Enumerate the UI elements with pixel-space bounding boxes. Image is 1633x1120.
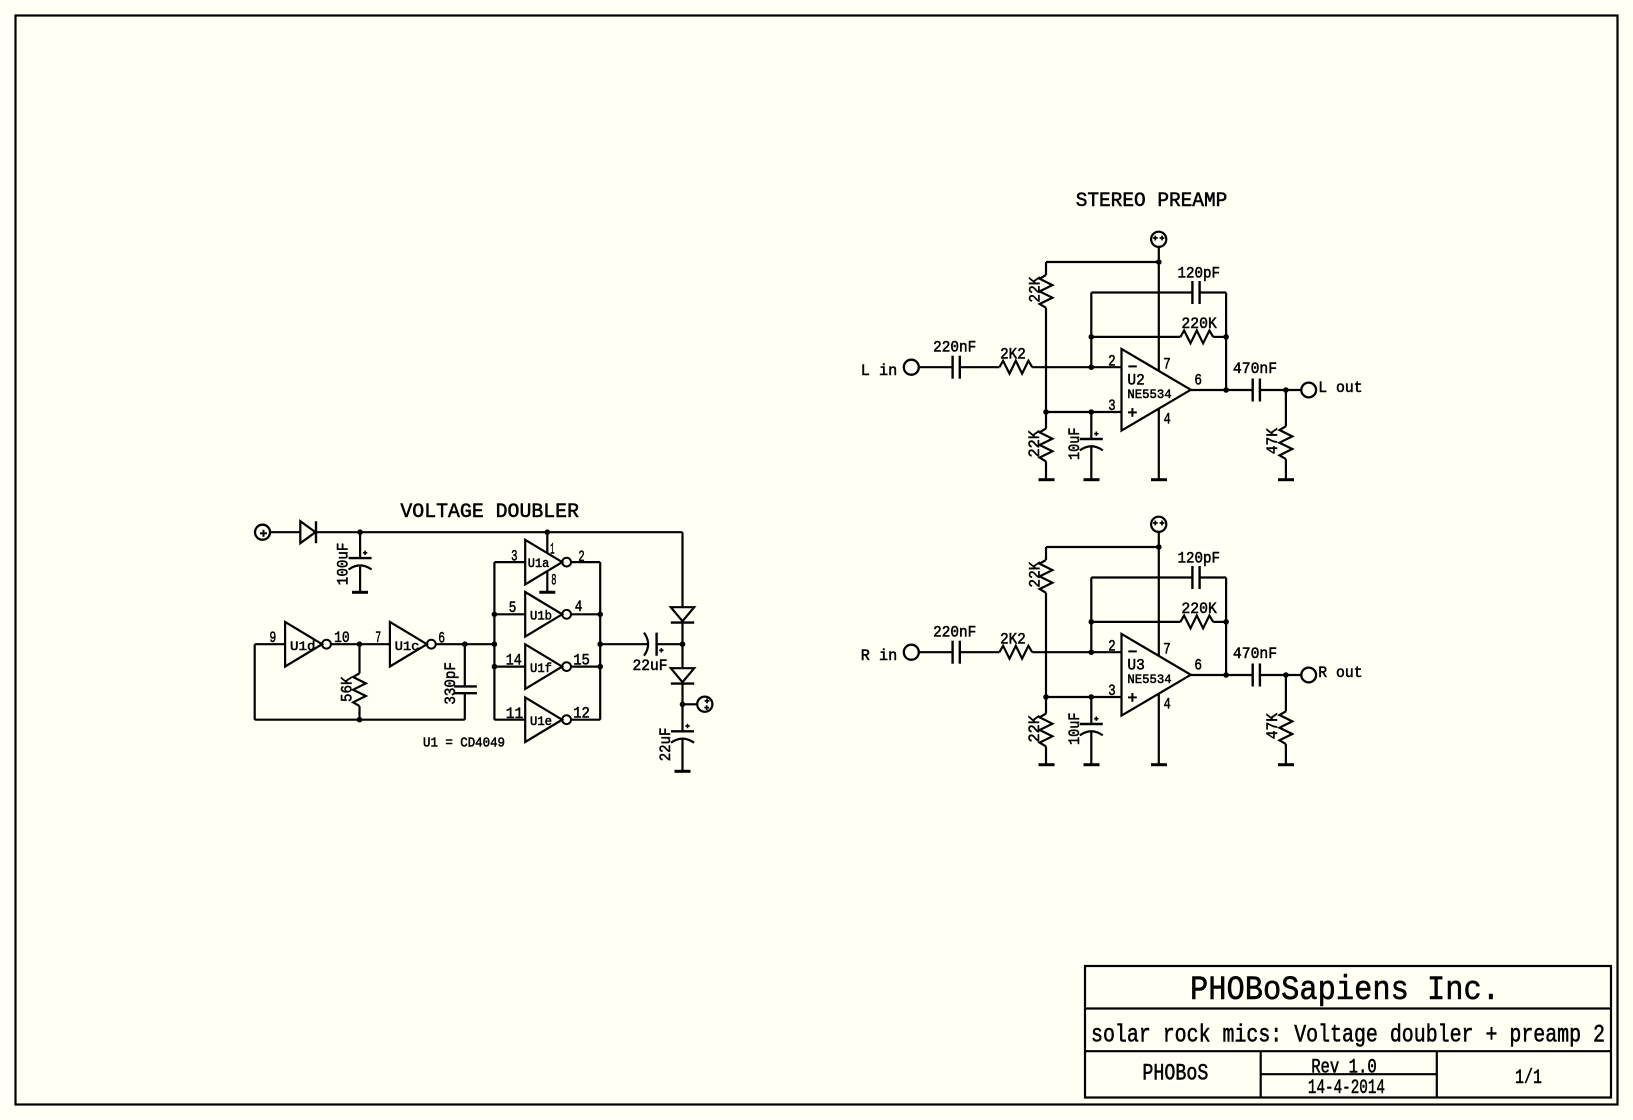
junction: 220K left end	[1089, 334, 1095, 340]
inverter U1c (CD4049)	[390, 622, 427, 667]
ground (47K)	[1278, 763, 1294, 766]
wire 22K lower to ground	[1045, 461, 1047, 479]
resistor 2K2 (R input)	[999, 646, 1032, 659]
wire top rail down to 22K upper	[1045, 262, 1047, 275]
ground (10uF)	[1084, 763, 1100, 766]
port R out (output connector)	[1301, 668, 1316, 683]
wire 2K2 to U2 pin 2 (inverting input)	[1032, 366, 1121, 368]
wire 10uF to ground	[1090, 731, 1092, 764]
wire V+ down to U3 pin 7	[1158, 532, 1160, 656]
wire U1e output to output bus	[571, 719, 600, 721]
wire top rail to power junction	[1046, 546, 1159, 548]
wire top rail down to 22K upper	[1045, 547, 1047, 560]
svg-text:U1e: U1e	[530, 714, 552, 729]
wire V+ down to U2 pin 7	[1158, 247, 1160, 371]
svg-text:L in: L in	[861, 362, 898, 380]
wire 22uF filter to ground	[681, 738, 683, 770]
ground (22K lower)	[1039, 478, 1055, 481]
svg-text:2K2: 2K2	[1000, 346, 1026, 364]
wire 10uF to ground	[1090, 446, 1092, 479]
svg-text:22uF: 22uF	[657, 728, 675, 762]
wire U2 pin 4 to ground	[1158, 409, 1160, 479]
inverter U1d (CD4049)	[285, 622, 322, 667]
junction: bias node on pin-3 wire	[1043, 694, 1049, 700]
wire to output power symbol	[683, 703, 698, 705]
wire bias node to U3 pin 3	[1046, 696, 1122, 698]
junction: 47K tap at output	[1283, 672, 1289, 678]
wire L-in to C 220nF	[919, 366, 953, 368]
wire input port to diode D1	[270, 531, 300, 533]
resistor 22K (lower bias divider)	[1040, 429, 1053, 462]
wire top rail down right side to diode D2	[681, 532, 683, 607]
capacitor 220nF (R input coupling)	[951, 641, 953, 664]
wire rail down to 100uF	[359, 532, 361, 558]
svg-text:U1a: U1a	[528, 556, 550, 571]
title block frame	[1085, 966, 1611, 1098]
resistor 47K (output load)	[1285, 675, 1287, 711]
capacitor 10uF (bias decoupling, electrolytic)	[1080, 723, 1103, 725]
junction: 220K right end	[1223, 619, 1229, 625]
wire U2 output pin 6 to 470nF	[1191, 389, 1253, 391]
resistor 56K (oscillator)	[353, 673, 366, 706]
wire 220K to right riser	[1213, 336, 1226, 338]
wire bus to U1a input	[494, 561, 525, 563]
svg-text:L out: L out	[1318, 379, 1362, 397]
svg-text:7: 7	[375, 629, 381, 647]
svg-text:2K2: 2K2	[1000, 631, 1026, 649]
junction on top rail	[1156, 544, 1162, 550]
junction: U1b input on bus	[492, 612, 498, 618]
inverter U1f (CD4049)	[525, 644, 562, 689]
svg-text:6: 6	[1194, 657, 1202, 675]
junction: feedback tap on pin-2 wire	[1089, 649, 1095, 655]
svg-text:11: 11	[506, 705, 524, 723]
wire R-in to C 220nF	[919, 651, 953, 653]
svg-text:8: 8	[551, 571, 556, 589]
junction: 220K right end	[1223, 334, 1229, 340]
port L in (input connector)	[904, 360, 919, 375]
wire bias node down to 22K lower	[1045, 412, 1047, 429]
wire feedback right riser down to output	[1225, 293, 1227, 391]
U3 plus sign (non-inverting input)	[1128, 696, 1137, 698]
svg-text:2: 2	[1108, 638, 1115, 656]
wire 120pF to right riser	[1200, 291, 1226, 293]
svg-text:100uF: 100uF	[334, 543, 352, 586]
op-amp U2 NE5534 (triangle)	[1122, 349, 1191, 431]
svg-text:U1b: U1b	[530, 609, 552, 624]
svg-text:U1 = CD4049: U1 = CD4049	[423, 736, 505, 751]
svg-text:PHOBoS: PHOBoS	[1142, 1061, 1208, 1087]
wire feedback riser (pin 2 up to 120pF row)	[1090, 293, 1092, 368]
wire 220K to right riser	[1213, 621, 1226, 623]
wire 22K upper to bias node (crosses pin-2 wire)	[1045, 308, 1047, 412]
wire 47K to ground	[1285, 459, 1287, 479]
wire 120pF row left segment	[1091, 291, 1192, 293]
svg-text:4: 4	[1164, 411, 1171, 429]
junction: U1f input on bus	[492, 664, 498, 670]
junction: U1b output on bus	[597, 612, 603, 618]
junction: drive node on bus	[492, 641, 498, 647]
wire doubler node to diode D3	[681, 644, 683, 668]
resistor 22K (upper bias divider)	[1040, 275, 1053, 308]
junction: 47K tap at output	[1283, 387, 1289, 393]
wire U3 output pin 6 to 470nF	[1191, 674, 1253, 676]
junction: bias node on pin-3 wire	[1043, 409, 1049, 415]
junction: 330pF tap	[462, 641, 468, 647]
svg-text:PHOBoSapiens Inc.: PHOBoSapiens Inc.	[1190, 972, 1500, 1010]
svg-text:7: 7	[1163, 356, 1171, 374]
wire feedback right riser down to output	[1225, 578, 1227, 676]
ground (U1 pin 8)	[539, 591, 555, 594]
svg-text:10uF: 10uF	[1066, 713, 1084, 746]
capacitor 120pF (feedback)	[1191, 281, 1193, 304]
junction: 10uF tap on pin-3 wire	[1089, 409, 1095, 415]
svg-text:U1c: U1c	[395, 639, 420, 654]
wire U1 pin 1 stub (VDD)	[546, 532, 548, 552]
junction: doubled output node	[680, 702, 686, 708]
svg-text:47K: 47K	[1264, 428, 1282, 455]
svg-text:3: 3	[1108, 682, 1115, 700]
inverter U1e (CD4049)	[525, 697, 562, 742]
wire bus to U1b input	[494, 613, 525, 615]
capacitor 22uF (output filter, electrolytic)	[671, 730, 694, 732]
power symbol V+ (R channel)	[1151, 517, 1166, 532]
svg-text:solar rock mics: Voltage doubl: solar rock mics: Voltage doubler + pream…	[1091, 1020, 1605, 1049]
svg-text:22K: 22K	[1026, 430, 1044, 458]
svg-text:U1d: U1d	[290, 639, 316, 654]
junction on top rail	[1156, 259, 1162, 265]
svg-text:2: 2	[1108, 353, 1115, 371]
junction: feedback tap on pin-2 wire	[1089, 364, 1095, 370]
svg-text:220K: 220K	[1181, 600, 1217, 618]
wire U1d output to U1c input	[331, 643, 390, 645]
wire 22uF to doubler node	[657, 643, 683, 645]
svg-text:NE5534: NE5534	[1127, 672, 1171, 687]
junction: 56K bottom on rail	[357, 717, 363, 723]
wire pin-3 node down to 10uF	[1090, 412, 1092, 439]
svg-text:7: 7	[1163, 641, 1171, 659]
resistor 22K (upper bias divider)	[1040, 560, 1053, 593]
wire output node down to 22uF filter cap	[681, 704, 683, 731]
resistor 220K (feedback)	[1180, 331, 1213, 344]
wire U3 pin 4 to ground	[1158, 694, 1160, 764]
svg-text:10uF: 10uF	[1066, 428, 1084, 461]
wire 100uF to ground	[359, 565, 361, 591]
svg-text:220nF: 220nF	[933, 339, 976, 357]
svg-text:220nF: 220nF	[933, 624, 976, 642]
svg-text:5: 5	[509, 599, 517, 617]
svg-text:6: 6	[1194, 372, 1202, 390]
svg-text:3: 3	[1108, 397, 1115, 415]
wire top rail to power junction	[1046, 261, 1159, 263]
wire 120pF row left segment	[1091, 576, 1192, 578]
svg-text:470nF: 470nF	[1233, 645, 1277, 663]
svg-text:NE5534: NE5534	[1127, 387, 1171, 402]
ground (22uF filter)	[675, 770, 691, 773]
wire diode to top rail	[316, 531, 682, 533]
wire 120pF to right riser	[1200, 576, 1226, 578]
resistor 22K (lower bias divider)	[1040, 714, 1053, 747]
inverter U1b (CD4049)	[525, 592, 562, 637]
svg-text:R in: R in	[861, 647, 898, 665]
wire oscillator bottom rail	[255, 719, 465, 721]
capacitor 100uF (reservoir, electrolytic)	[349, 557, 372, 559]
wire U1a output to output bus	[571, 561, 600, 563]
wire bus to U1f input	[494, 665, 525, 667]
wire bus to U1e input	[494, 719, 525, 721]
capacitor 470nF (output coupling)	[1251, 379, 1253, 402]
svg-text:56K: 56K	[339, 676, 357, 702]
wire 220nF to R 2K2	[960, 366, 1000, 368]
U3 minus sign (inverting input)	[1128, 650, 1137, 652]
power symbol V+ (L channel)	[1151, 232, 1166, 247]
junction: feedback at output	[1223, 672, 1229, 678]
ground (op-amp pin 4)	[1151, 763, 1167, 766]
wire 56K lower lead	[358, 706, 360, 720]
junction: U1 pin 1 tap on rail	[545, 529, 551, 535]
wire inverter output bus (right vertical)	[599, 562, 601, 720]
ground (10uF)	[1084, 478, 1100, 481]
wire U1c output to inverter bank bus	[436, 643, 495, 645]
junction: 22uF feed on bus	[597, 641, 603, 647]
svg-text:3: 3	[511, 547, 517, 565]
capacitor 470nF (output coupling)	[1251, 664, 1253, 687]
svg-text:STEREO PREAMP: STEREO PREAMP	[1076, 190, 1228, 213]
ground (op-amp pin 4)	[1151, 478, 1167, 481]
svg-text:330pF: 330pF	[442, 662, 460, 705]
svg-text:22K: 22K	[1026, 715, 1044, 743]
power symbol V++ (doubled supply out)	[697, 697, 712, 712]
capacitor 10uF (bias decoupling, electrolytic)	[1080, 438, 1103, 440]
wire pin-3 node down to 10uF	[1090, 697, 1092, 724]
svg-text:4: 4	[1164, 696, 1171, 714]
svg-text:220K: 220K	[1181, 315, 1217, 333]
port R in (input connector)	[904, 645, 919, 660]
wire D3 cathode to output node	[681, 684, 683, 705]
wire U1b output to output bus	[571, 613, 600, 615]
capacitor 220nF (L input coupling)	[951, 356, 953, 379]
svg-text:U1f: U1f	[530, 661, 552, 676]
junction: doubler node	[680, 641, 686, 647]
svg-text:1/1: 1/1	[1515, 1067, 1542, 1090]
svg-text:R out: R out	[1318, 664, 1362, 682]
wire U1f output to output bus	[571, 665, 600, 667]
wire 47K to ground	[1285, 744, 1287, 764]
svg-text:47K: 47K	[1264, 713, 1282, 740]
U1 pin 8 stub (VSS)	[546, 572, 548, 592]
wire 22K lower to ground	[1045, 746, 1047, 764]
wire 220K row left segment	[1091, 336, 1180, 338]
port L out (output connector)	[1301, 383, 1316, 398]
wire D2 cathode to doubler node	[681, 623, 683, 645]
resistor 220K (feedback)	[1180, 616, 1213, 629]
diode D1 (input, pointing right)	[300, 521, 315, 543]
svg-text:22uF: 22uF	[633, 657, 668, 675]
resistor 2K2 (L input)	[999, 361, 1032, 374]
wire 330pF upper lead	[464, 644, 466, 686]
svg-text:14: 14	[506, 651, 522, 669]
junction: 56K top / U1d output	[357, 641, 363, 647]
wire 220K row left segment	[1091, 621, 1180, 623]
capacitor 330pF (oscillator)	[454, 685, 477, 687]
resistor 47K (output load)	[1285, 390, 1287, 426]
wire 470nF to L out	[1260, 389, 1301, 391]
inverter U1a (CD4049)	[525, 540, 562, 585]
wire 220nF to R 2K2	[960, 651, 1000, 653]
wire bias node down to 22K lower	[1045, 697, 1047, 714]
junction: 10uF tap on pin-3 wire	[1089, 694, 1095, 700]
ground (47K)	[1278, 478, 1294, 481]
wire bias node to U2 pin 3	[1046, 411, 1122, 413]
svg-text:22K: 22K	[1027, 276, 1045, 302]
wire feedback left riser	[254, 644, 256, 720]
wire feedback to U1d input	[255, 643, 285, 645]
capacitor 22uF (pump, electrolytic, horizontal)	[655, 633, 657, 656]
wire 330pF lower lead	[464, 693, 466, 720]
junction: feedback at output	[1223, 387, 1229, 393]
wire 470nF to R out	[1260, 674, 1301, 676]
svg-text:14-4-2014: 14-4-2014	[1308, 1077, 1385, 1100]
svg-text:470nF: 470nF	[1233, 360, 1277, 378]
svg-text:VOLTAGE DOUBLER: VOLTAGE DOUBLER	[400, 501, 579, 524]
port + (doubler supply input)	[255, 525, 270, 540]
junction: 220K left end	[1089, 619, 1095, 625]
junction: 100uF tap on rail	[357, 529, 363, 535]
wire inverter input bus (left vertical)	[493, 562, 495, 720]
diode D3 (rectifier, pointing down)	[671, 668, 694, 682]
svg-text:120pF: 120pF	[1178, 265, 1221, 283]
wire 2K2 to U3 pin 2 (inverting input)	[1032, 651, 1121, 653]
wire feedback riser (pin 2 up to 120pF row)	[1090, 578, 1092, 653]
wire 56K upper lead	[358, 644, 360, 673]
wire 22K upper to bias node (crosses pin-2 wire)	[1045, 593, 1047, 697]
U2 minus sign (inverting input)	[1128, 365, 1137, 367]
junction: U1f output on bus	[597, 664, 603, 670]
op-amp U3 NE5534 (triangle)	[1122, 634, 1191, 716]
wire output bus to 22uF pump cap	[600, 643, 647, 645]
svg-text:22K: 22K	[1027, 561, 1045, 587]
U2 plus sign (non-inverting input)	[1128, 411, 1137, 413]
ground (100uF)	[352, 591, 368, 594]
svg-text:120pF: 120pF	[1178, 550, 1221, 568]
diode D2 (rectifier, pointing down)	[671, 607, 694, 621]
capacitor 120pF (feedback)	[1191, 566, 1193, 589]
ground (22K lower)	[1039, 763, 1055, 766]
